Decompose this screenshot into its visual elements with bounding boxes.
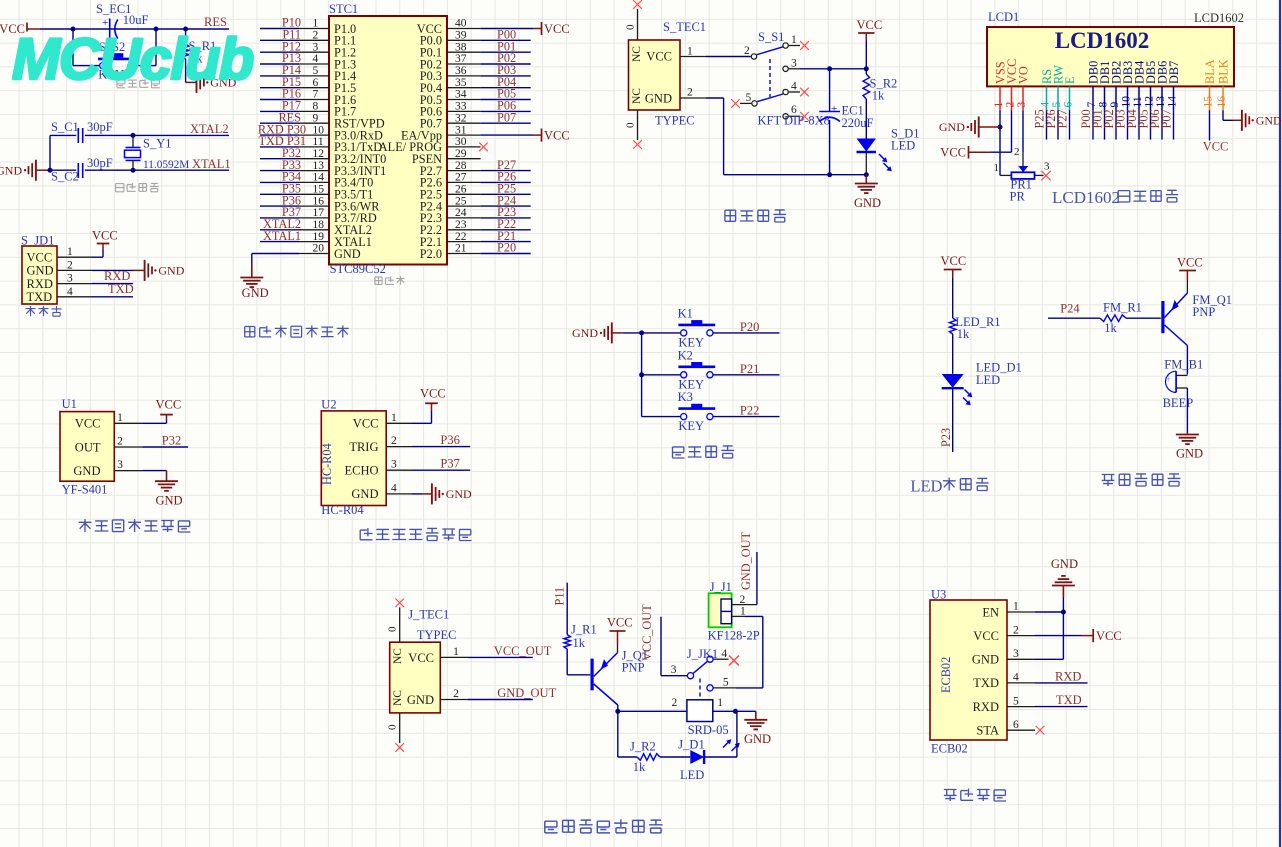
svg-text:MCUclub: MCUclub	[12, 27, 253, 92]
svg-text:TYPEC: TYPEC	[655, 114, 695, 128]
svg-text:VCC: VCC	[1096, 629, 1122, 643]
svg-text:J_TEC1: J_TEC1	[408, 608, 449, 622]
svg-text:P23: P23	[939, 428, 953, 447]
svg-text:P22: P22	[740, 404, 759, 418]
svg-text:XTAL2: XTAL2	[190, 122, 229, 136]
svg-text:0: 0	[625, 24, 637, 30]
svg-text:TXD: TXD	[27, 290, 53, 304]
svg-text:VCC: VCC	[857, 18, 883, 32]
svg-text:1: 1	[67, 246, 73, 258]
svg-text:5: 5	[1051, 102, 1063, 108]
svg-text:2: 2	[1014, 146, 1020, 158]
svg-text:11.0592M: 11.0592M	[143, 159, 189, 171]
svg-text:2: 2	[1013, 624, 1019, 636]
svg-text:1k: 1k	[957, 327, 970, 341]
svg-text:STC89C52: STC89C52	[330, 262, 386, 276]
svg-text:10uF: 10uF	[123, 13, 149, 27]
svg-text:BLK: BLK	[1217, 59, 1231, 84]
svg-text:3: 3	[1013, 648, 1019, 660]
svg-text:P36: P36	[440, 433, 459, 447]
svg-text:0: 0	[387, 626, 399, 632]
svg-text:GND: GND	[1256, 114, 1282, 128]
svg-text:3: 3	[791, 58, 797, 70]
svg-text:1: 1	[1013, 601, 1019, 613]
svg-text:J_J1: J_J1	[710, 580, 732, 594]
svg-text:LCD1602: LCD1602	[1194, 11, 1244, 25]
svg-text:1: 1	[391, 412, 397, 424]
svg-text:J_R1: J_R1	[571, 623, 597, 637]
svg-text:GND: GND	[334, 247, 361, 261]
svg-text:P20: P20	[497, 241, 516, 255]
svg-text:VCC: VCC	[353, 417, 379, 431]
svg-text:ECB02: ECB02	[939, 657, 953, 693]
svg-text:SRD-05: SRD-05	[688, 723, 729, 737]
svg-text:ECB02: ECB02	[931, 742, 968, 756]
svg-text:6: 6	[1062, 102, 1074, 108]
svg-text:KF128-2P: KF128-2P	[708, 628, 760, 642]
svg-text:30pF: 30pF	[87, 120, 113, 134]
svg-text:GND: GND	[972, 653, 999, 667]
svg-text:VCC: VCC	[607, 616, 633, 630]
svg-text:GND: GND	[645, 91, 672, 105]
svg-text:+: +	[831, 103, 837, 115]
svg-text:5: 5	[746, 92, 752, 104]
svg-text:2: 2	[391, 435, 397, 447]
svg-text:VO: VO	[1017, 66, 1031, 84]
svg-text:P24: P24	[1060, 302, 1080, 316]
svg-text:J_D1: J_D1	[678, 738, 704, 752]
svg-text:GND: GND	[407, 693, 434, 707]
svg-text:3: 3	[1016, 102, 1028, 108]
svg-text:1k: 1k	[633, 760, 646, 774]
svg-text:3: 3	[1044, 161, 1050, 173]
svg-text:1k: 1k	[872, 89, 885, 103]
svg-text:VCC: VCC	[1203, 140, 1229, 154]
svg-text:1k: 1k	[573, 636, 586, 650]
svg-text:S_C2: S_C2	[51, 170, 79, 184]
svg-text:LCD1602: LCD1602	[1055, 28, 1150, 53]
svg-text:GND: GND	[744, 732, 771, 746]
svg-text:K1: K1	[678, 306, 693, 320]
svg-text:12: 12	[1143, 96, 1155, 108]
svg-text:4: 4	[721, 648, 727, 660]
svg-text:VCC: VCC	[27, 251, 53, 265]
svg-text:LCD1602: LCD1602	[1052, 188, 1120, 207]
svg-text:KEY: KEY	[678, 419, 704, 433]
svg-text:BEEP: BEEP	[1163, 396, 1194, 410]
svg-text:LED: LED	[976, 373, 1000, 387]
svg-text:NC: NC	[631, 46, 643, 62]
svg-text:GND_OUT: GND_OUT	[739, 531, 753, 590]
svg-text:KFT DIP-8X8: KFT DIP-8X8	[758, 114, 830, 128]
svg-text:GND: GND	[0, 163, 22, 177]
svg-text:4: 4	[1039, 102, 1051, 108]
svg-text:GND: GND	[854, 196, 881, 210]
svg-text:RXD: RXD	[973, 700, 999, 714]
svg-text:S_Y1: S_Y1	[143, 137, 171, 151]
svg-text:4: 4	[791, 81, 797, 93]
svg-text:P27: P27	[1056, 109, 1070, 128]
svg-text:U1: U1	[62, 397, 77, 411]
svg-text:VCC: VCC	[75, 417, 101, 431]
svg-text:TYPEC: TYPEC	[417, 628, 457, 642]
svg-text:YF-S401: YF-S401	[62, 483, 108, 497]
svg-text:LED: LED	[891, 139, 915, 153]
svg-text:GND: GND	[572, 326, 598, 340]
svg-text:NC: NC	[392, 690, 404, 706]
svg-text:RXD: RXD	[1055, 669, 1081, 683]
svg-text:GND: GND	[27, 264, 54, 278]
svg-text:GND: GND	[1176, 447, 1203, 461]
svg-text:1: 1	[791, 34, 797, 46]
svg-text:1: 1	[717, 697, 723, 709]
svg-text:PNP: PNP	[622, 661, 645, 675]
svg-text:15: 15	[1202, 96, 1214, 108]
svg-text:ECHO: ECHO	[344, 464, 378, 478]
svg-text:VCC: VCC	[973, 629, 999, 643]
svg-text:+: +	[1166, 375, 1172, 386]
svg-text:VCC: VCC	[940, 145, 966, 159]
svg-text:S_S1: S_S1	[758, 30, 784, 44]
svg-text:1: 1	[453, 646, 459, 658]
svg-text:GND_OUT: GND_OUT	[497, 686, 556, 700]
svg-text:BLA: BLA	[1203, 59, 1217, 84]
svg-text:VCC: VCC	[92, 229, 118, 243]
svg-text:11: 11	[1132, 96, 1144, 107]
svg-text:J_R2: J_R2	[630, 740, 656, 754]
svg-text:4: 4	[67, 286, 73, 298]
svg-text:VCC: VCC	[420, 387, 446, 401]
svg-text:P37: P37	[440, 457, 459, 471]
svg-text:P32: P32	[162, 434, 181, 448]
svg-text:P07: P07	[497, 110, 516, 124]
svg-text:OUT: OUT	[75, 440, 101, 454]
svg-text:GND: GND	[1051, 557, 1078, 571]
svg-text:HC-R04: HC-R04	[320, 443, 334, 485]
svg-text:2: 2	[671, 697, 677, 709]
svg-text:1k: 1k	[1104, 321, 1117, 335]
svg-text:2: 2	[744, 45, 750, 57]
svg-text:P11: P11	[553, 587, 567, 606]
svg-text:FM_B1: FM_B1	[1164, 358, 1203, 372]
svg-text:220uF: 220uF	[842, 116, 874, 130]
svg-text:DB7: DB7	[1167, 61, 1181, 84]
svg-text:KEY: KEY	[678, 335, 704, 349]
svg-text:14: 14	[1166, 96, 1178, 108]
svg-text:VCC_OUT: VCC_OUT	[640, 604, 654, 661]
svg-text:STA: STA	[976, 724, 999, 738]
svg-text:P2.0: P2.0	[420, 247, 442, 261]
svg-text:1: 1	[994, 162, 1000, 174]
svg-text:VCC: VCC	[544, 128, 570, 142]
svg-text:5: 5	[1013, 695, 1019, 707]
svg-text:STC1: STC1	[329, 2, 358, 16]
svg-text:TXD: TXD	[1056, 693, 1082, 707]
svg-text:XTAL1: XTAL1	[192, 157, 231, 171]
svg-text:3: 3	[117, 459, 123, 471]
svg-text:TXD: TXD	[973, 676, 999, 690]
svg-text:3: 3	[671, 664, 677, 676]
svg-text:K3: K3	[678, 390, 693, 404]
svg-text:8: 8	[1097, 102, 1109, 108]
svg-text:NC: NC	[392, 648, 404, 664]
svg-text:1: 1	[993, 102, 1005, 108]
svg-text:HC-R04: HC-R04	[321, 503, 364, 517]
svg-text:LED: LED	[910, 477, 942, 496]
svg-text:16: 16	[1216, 96, 1228, 108]
svg-text:GND: GND	[158, 264, 184, 278]
svg-text:XTAL1: XTAL1	[263, 229, 301, 243]
svg-text:P07: P07	[1160, 109, 1174, 128]
svg-text:4: 4	[1013, 672, 1019, 684]
svg-text:6: 6	[1013, 719, 1019, 731]
svg-text:GND: GND	[73, 464, 100, 478]
svg-text:TXD: TXD	[108, 282, 134, 296]
svg-text:10: 10	[1120, 96, 1132, 108]
svg-text:GND: GND	[939, 120, 965, 134]
svg-text:9: 9	[1109, 102, 1121, 108]
svg-text:GND: GND	[156, 494, 183, 508]
svg-text:GND: GND	[446, 487, 472, 501]
svg-text:S_C1: S_C1	[51, 120, 79, 134]
svg-text:FM_R1: FM_R1	[1103, 301, 1142, 315]
svg-text:2: 2	[453, 688, 459, 700]
svg-text:RXD: RXD	[27, 277, 53, 291]
svg-text:1: 1	[687, 46, 693, 58]
svg-text:2: 2	[1004, 102, 1016, 108]
svg-text:5: 5	[723, 677, 729, 689]
svg-text:VCC: VCC	[941, 254, 967, 268]
svg-text:3: 3	[67, 273, 73, 285]
svg-text:0: 0	[625, 122, 637, 128]
svg-text:GND: GND	[351, 487, 378, 501]
svg-text:RXD: RXD	[104, 269, 130, 283]
svg-text:PR: PR	[1010, 190, 1026, 204]
svg-text:VCC: VCC	[156, 398, 182, 412]
svg-text:13: 13	[1155, 96, 1167, 108]
svg-text:1: 1	[117, 412, 123, 424]
svg-text:NC: NC	[631, 88, 643, 104]
svg-text:0: 0	[387, 724, 399, 730]
svg-text:2: 2	[117, 436, 123, 448]
svg-text:30pF: 30pF	[87, 156, 113, 170]
svg-text:VCC_OUT: VCC_OUT	[494, 644, 552, 658]
svg-text:EN: EN	[982, 605, 999, 619]
svg-text:2: 2	[67, 259, 73, 271]
svg-text:LED: LED	[680, 768, 704, 782]
svg-text:K2: K2	[678, 348, 693, 362]
svg-text:3: 3	[391, 459, 397, 471]
svg-text:VCC: VCC	[408, 651, 434, 665]
svg-text:LCD1: LCD1	[988, 10, 1019, 24]
svg-text:P21: P21	[740, 362, 759, 376]
svg-text:VCC: VCC	[544, 22, 570, 36]
svg-text:PNP: PNP	[1192, 305, 1215, 319]
svg-text:E: E	[1063, 76, 1077, 84]
svg-text:VCC: VCC	[646, 50, 672, 64]
svg-text:U2: U2	[321, 398, 336, 412]
svg-text:VCC: VCC	[1177, 256, 1203, 270]
svg-text:GND: GND	[242, 286, 269, 300]
svg-text:2: 2	[687, 87, 693, 99]
svg-text:7: 7	[1086, 102, 1098, 108]
svg-text:S_TEC1: S_TEC1	[663, 20, 706, 34]
svg-text:4: 4	[391, 482, 397, 494]
svg-text:TRIG: TRIG	[349, 440, 378, 454]
svg-text:P20: P20	[740, 320, 759, 334]
